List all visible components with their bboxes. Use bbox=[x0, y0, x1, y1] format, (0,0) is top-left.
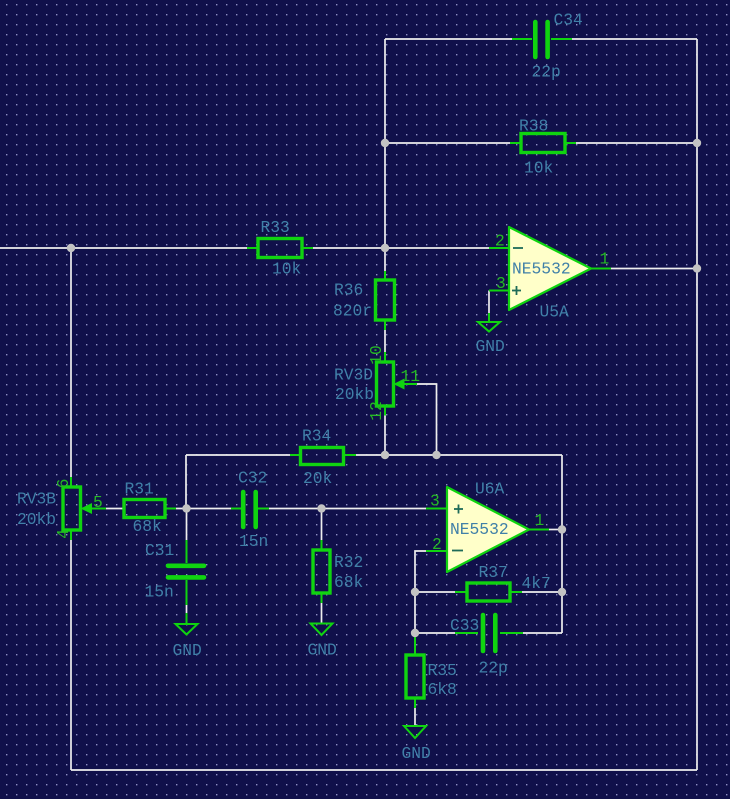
wire U6A output bbox=[549, 529, 562, 531]
svg-text:6: 6 bbox=[54, 479, 73, 489]
wire C33 rail bbox=[415, 632, 455, 634]
svg-text:68k: 68k bbox=[334, 573, 363, 592]
svg-text:15n: 15n bbox=[239, 532, 268, 551]
capacitor C32 bbox=[231, 469, 269, 552]
svg-text:6k8: 6k8 bbox=[428, 680, 457, 699]
svg-text:20kb: 20kb bbox=[335, 385, 374, 404]
svg-text:R35: R35 bbox=[428, 661, 457, 680]
junction right/R38 rail bbox=[693, 139, 701, 147]
wire top rail right of C34 bbox=[572, 38, 697, 40]
junction mid/R38 rail bbox=[381, 139, 389, 147]
svg-text:5: 5 bbox=[93, 493, 103, 512]
svg-text:4: 4 bbox=[54, 529, 73, 539]
svg-text:15n: 15n bbox=[145, 583, 174, 602]
junction mid/R33 rail bbox=[381, 244, 389, 252]
wire between R36 and RV3D bbox=[384, 330, 386, 352]
wire R38 rail left bbox=[385, 142, 510, 144]
wire left rail upper bbox=[70, 248, 72, 477]
svg-text:C34: C34 bbox=[554, 11, 583, 30]
junction R37 right bbox=[558, 588, 566, 596]
svg-text:U5A: U5A bbox=[540, 303, 570, 322]
wire right rail bbox=[696, 39, 698, 770]
wire R34 rail bbox=[186, 454, 290, 456]
svg-text:GND: GND bbox=[173, 641, 202, 660]
junction U6A out bbox=[558, 525, 566, 533]
svg-text:1: 1 bbox=[600, 250, 610, 269]
svg-text:U6A: U6A bbox=[475, 480, 505, 499]
svg-text:R38: R38 bbox=[519, 117, 548, 136]
svg-text:R34: R34 bbox=[302, 427, 331, 446]
svg-text:68k: 68k bbox=[133, 517, 162, 536]
svg-text:2: 2 bbox=[495, 232, 505, 251]
svg-text:R31: R31 bbox=[125, 480, 154, 499]
svg-text:R37: R37 bbox=[479, 563, 508, 582]
wire R33 rail to U5A pin2 bbox=[313, 247, 489, 249]
svg-text:22p: 22p bbox=[479, 659, 508, 678]
svg-text:C33: C33 bbox=[450, 616, 479, 635]
svg-text:RV3D: RV3D bbox=[334, 366, 373, 385]
op-amp U5A bbox=[489, 227, 611, 322]
resistor R31 bbox=[124, 480, 176, 537]
svg-text:GND: GND bbox=[476, 337, 505, 356]
wire right mid vertical bbox=[561, 455, 563, 633]
wire below RV3D bbox=[384, 415, 386, 455]
svg-text:11: 11 bbox=[401, 367, 421, 386]
junction wiper/R34 rail bbox=[432, 451, 440, 459]
svg-text:R33: R33 bbox=[261, 218, 290, 237]
svg-text:12: 12 bbox=[367, 401, 386, 421]
svg-text:20k: 20k bbox=[303, 469, 332, 488]
wire R33 rail from left edge bbox=[0, 247, 247, 249]
wire RV3D wiper to R34 rail bbox=[417, 384, 437, 455]
svg-text:3: 3 bbox=[430, 492, 440, 511]
svg-text:3: 3 bbox=[496, 274, 506, 293]
ground below U5A bbox=[476, 313, 505, 356]
wire R38 rail right bbox=[576, 142, 697, 144]
wire U6A pin3 rail bbox=[106, 508, 124, 510]
svg-text:20kb: 20kb bbox=[17, 510, 56, 529]
resistor R33 bbox=[247, 218, 313, 279]
svg-text:GND: GND bbox=[402, 744, 431, 763]
wire R37 rail bbox=[415, 591, 455, 593]
svg-text:22p: 22p bbox=[532, 63, 561, 82]
svg-text:C32: C32 bbox=[238, 469, 267, 488]
svg-text:1: 1 bbox=[535, 511, 545, 530]
ground below R32 bbox=[308, 624, 337, 660]
junction R32/pin3 rail bbox=[317, 504, 325, 512]
svg-text:GND: GND bbox=[308, 641, 337, 660]
op-amp U6A bbox=[426, 480, 549, 573]
svg-text:4k7: 4k7 bbox=[522, 574, 551, 593]
svg-text:820r: 820r bbox=[333, 302, 372, 321]
wire R32 branch bbox=[321, 509, 323, 541]
svg-text:R36: R36 bbox=[334, 281, 363, 300]
resistor R32 bbox=[313, 540, 363, 603]
ground below C31 bbox=[173, 613, 202, 660]
junction R33/left rail bbox=[67, 244, 75, 252]
resistor R35 bbox=[406, 633, 457, 708]
svg-text:2: 2 bbox=[432, 535, 442, 554]
svg-text:R32: R32 bbox=[334, 553, 363, 572]
svg-text:NE5532: NE5532 bbox=[512, 260, 571, 279]
svg-text:NE5532: NE5532 bbox=[450, 520, 509, 539]
wire R34 rail left drop bbox=[185, 455, 187, 509]
capacitor C34 bbox=[512, 11, 583, 82]
svg-text:RV3B: RV3B bbox=[17, 490, 56, 509]
svg-text:10: 10 bbox=[367, 345, 386, 365]
resistor R37 bbox=[455, 563, 551, 601]
svg-text:10k: 10k bbox=[524, 159, 553, 178]
wire left rail lower bbox=[70, 540, 72, 770]
capacitor C33 bbox=[450, 615, 523, 678]
junction R37 left bbox=[411, 588, 419, 596]
wire U5A pin3 to gnd bbox=[488, 291, 490, 314]
junction mid/R34 rail bbox=[381, 451, 389, 459]
resistor R38 bbox=[510, 117, 576, 178]
potentiometer RV3D bbox=[334, 345, 420, 421]
resistor R36 bbox=[333, 271, 395, 330]
junction C33 left bbox=[411, 629, 419, 637]
wire bottom rail bbox=[71, 769, 697, 771]
junction C31/pin3 rail bbox=[182, 504, 190, 512]
wire R35 to gnd bbox=[414, 708, 416, 726]
resistor R34 bbox=[290, 427, 356, 489]
svg-text:10k: 10k bbox=[272, 260, 301, 279]
potentiometer RV3B bbox=[17, 477, 106, 540]
capacitor C31 bbox=[145, 540, 205, 605]
wire U5A output bbox=[611, 268, 697, 270]
wire C31 branch bbox=[186, 509, 188, 541]
svg-text:C31: C31 bbox=[145, 541, 174, 560]
wire mid vertical above R36 bbox=[384, 39, 386, 271]
wire U6A pin2 branch bbox=[415, 551, 426, 645]
ground below R35 bbox=[402, 726, 431, 763]
junction right/U5A out bbox=[693, 264, 701, 272]
wire top rail left of C34 bbox=[385, 38, 512, 40]
